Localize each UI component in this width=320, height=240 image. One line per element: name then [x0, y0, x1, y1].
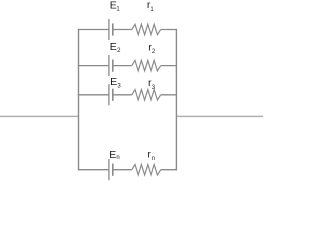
wire: branch 3 right segment: [161, 94, 177, 96]
svg-text:r: r: [147, 149, 151, 161]
svg-text:n: n: [116, 155, 119, 161]
battery En: [109, 159, 113, 180]
label r3: [148, 77, 156, 91]
label En: [109, 149, 119, 161]
label r2: [148, 41, 156, 55]
svg-text:E: E: [110, 41, 117, 53]
label r1: [147, 0, 155, 13]
wire: branch 2 right segment: [161, 65, 177, 67]
svg-text:2: 2: [117, 48, 121, 54]
svg-text:3: 3: [117, 83, 121, 89]
wire: branch 2 middle segment: [113, 65, 132, 67]
wire: left vertical bus: [78, 29, 80, 171]
resistor r3: [132, 90, 161, 100]
wire: branch 3 middle segment: [113, 94, 132, 96]
label E2: [110, 41, 121, 54]
wire: branch 3 left segment: [78, 94, 109, 96]
battery E1: [109, 19, 113, 40]
battery E2: [109, 55, 113, 76]
wire: main lead right (external): [176, 115, 263, 117]
resistor r2: [132, 60, 161, 70]
wire: branch n left segment: [78, 169, 109, 171]
wire: branch 1 right segment: [161, 29, 177, 31]
svg-text:n: n: [152, 156, 155, 162]
wire: branch n middle segment: [113, 169, 132, 171]
wire: branch n right segment: [161, 169, 177, 171]
wire: main lead left (external): [0, 115, 79, 117]
svg-text:E: E: [110, 76, 117, 88]
svg-text:E: E: [109, 149, 116, 161]
resistor rn: [132, 165, 161, 175]
svg-text:1: 1: [116, 7, 120, 13]
wire: branch 1 left segment: [78, 29, 109, 31]
svg-text:1: 1: [150, 7, 154, 13]
label E3: [110, 76, 121, 89]
label E1: [110, 0, 121, 13]
wire: branch 2 left segment: [78, 65, 109, 67]
svg-text:3: 3: [152, 85, 156, 91]
resistor r1: [132, 24, 161, 34]
wire: branch 1 middle segment: [113, 29, 132, 31]
label rn: [147, 149, 155, 162]
battery E3: [109, 84, 113, 105]
wire: right vertical bus: [175, 29, 177, 171]
svg-text:2: 2: [152, 49, 156, 55]
